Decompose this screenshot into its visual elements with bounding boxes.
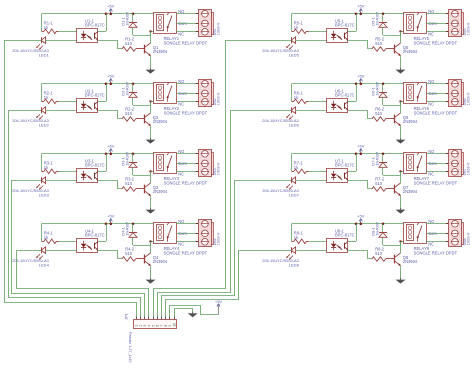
resistor R3-1 1k bbox=[42, 161, 59, 174]
node rail junction dots ch2 bbox=[105, 83, 135, 86]
svg-text:LED6: LED6 bbox=[289, 122, 300, 127]
svg-text:2N3904: 2N3904 bbox=[403, 49, 418, 54]
node rail junction dots ch7 bbox=[355, 153, 385, 156]
wire RELAY2 NC to connector bbox=[176, 101, 198, 103]
resistor R5-2 510 bbox=[372, 37, 395, 52]
ground GND Q4 bbox=[146, 278, 156, 284]
svg-text:510: 510 bbox=[375, 111, 383, 116]
svg-text:1N4007: 1N4007 bbox=[125, 11, 130, 26]
wire Q7 collector node bbox=[399, 170, 404, 183]
wire U8-1 emitter to R8-2 bbox=[348, 251, 372, 259]
+5V supply at JP1 bbox=[215, 299, 223, 315]
svg-text:SONGLE RELAY DPDT: SONGLE RELAY DPDT bbox=[414, 111, 458, 116]
svg-text:+5V: +5V bbox=[357, 4, 365, 9]
wire +5V rail ch6 bbox=[292, 83, 404, 85]
svg-text:LED8: LED8 bbox=[289, 262, 300, 267]
svg-text:BPC-817C: BPC-817C bbox=[85, 93, 105, 98]
+5V supply P5V5 bbox=[357, 4, 365, 14]
diode D6-1 1N4007 bbox=[371, 81, 401, 105]
wire input net IN1 (LED1 to JP1 pin 1) bbox=[5, 41, 137, 320]
relay RELAY3 SONGLE RELAY DPDT bbox=[154, 153, 208, 186]
wire U7-1 collector to rail bbox=[348, 154, 357, 172]
optocoupler U1-1 BPC-817C bbox=[77, 18, 105, 42]
svg-text:1N4007: 1N4007 bbox=[375, 151, 380, 166]
ground GND at JP1 bbox=[188, 312, 198, 318]
wire +5V rail ch2 bbox=[42, 83, 154, 85]
svg-text:+5V: +5V bbox=[107, 214, 115, 219]
svg-text:BPC-817C: BPC-817C bbox=[335, 163, 355, 168]
resistor R5-1 1k bbox=[292, 21, 309, 34]
connector X4 screw terminal 1X03-V bbox=[196, 220, 221, 247]
wire +5V rail ch1 bbox=[42, 13, 154, 15]
wire LED7 to U7-1 pin2 bbox=[296, 180, 327, 182]
wire Q1 collector node bbox=[149, 30, 154, 43]
svg-text:1X03-V: 1X03-V bbox=[467, 232, 471, 245]
svg-text:BPC-817C: BPC-817C bbox=[335, 23, 355, 28]
wire +5V rail ch7 bbox=[292, 153, 404, 155]
svg-text:+5V: +5V bbox=[107, 74, 115, 79]
svg-text:LED4: LED4 bbox=[39, 262, 50, 267]
svg-text:2N3904: 2N3904 bbox=[403, 119, 418, 124]
transistor Q1 2N3904 bbox=[145, 43, 168, 56]
relay RELAY8 SONGLE RELAY DPDT bbox=[404, 223, 458, 256]
LED7 204-10UYC/S530-A3 bbox=[262, 177, 299, 198]
wire RELAY4 Com to connector bbox=[176, 233, 198, 235]
LED5 204-10UYC/S530-A3 bbox=[262, 37, 299, 58]
resistor R2-2 510 bbox=[122, 107, 145, 122]
optocoupler U5-1 BPC-817C bbox=[327, 18, 355, 42]
svg-text:1X03-V: 1X03-V bbox=[217, 22, 221, 35]
wire JP1 pin 10 to ground bbox=[175, 309, 193, 320]
connector X3 screw terminal 1X03-V bbox=[196, 150, 221, 177]
wire U2-1 collector to rail bbox=[98, 84, 107, 102]
transistor Q2 2N3904 bbox=[145, 113, 168, 126]
wire LED4 to U4-1 pin2 bbox=[46, 250, 77, 252]
transistor Q5 2N3904 bbox=[395, 43, 418, 56]
wire RELAY1 NC to connector bbox=[176, 31, 198, 33]
svg-text:510: 510 bbox=[125, 111, 133, 116]
+5V supply P5V6 bbox=[357, 74, 365, 84]
resistor R6-1 1k bbox=[292, 91, 309, 104]
optocoupler U6-1 BPC-817C bbox=[327, 88, 355, 112]
optocoupler U2-1 BPC-817C bbox=[77, 88, 105, 112]
wire R7-1 to U7-1 pin1 bbox=[309, 171, 328, 173]
wire RELAY5 NC to connector bbox=[426, 31, 448, 33]
optocoupler U8-1 BPC-817C bbox=[327, 228, 355, 252]
svg-text:BPC-817C: BPC-817C bbox=[85, 23, 105, 28]
svg-text:1X03-V: 1X03-V bbox=[467, 162, 471, 175]
svg-text:SONGLE RELAY DPDT: SONGLE RELAY DPDT bbox=[414, 181, 458, 186]
wire LED8 to U8-1 pin2 bbox=[296, 250, 327, 252]
diode D1-1 1N4007 bbox=[121, 11, 151, 35]
wire R5-1 to U5-1 pin1 bbox=[309, 31, 328, 33]
node rail junction dots ch1 bbox=[105, 13, 135, 16]
wire input net IN2 (LED2 to JP1 pin 2) bbox=[9, 111, 141, 320]
wire Q6 collector node bbox=[399, 100, 404, 113]
connector X8 screw terminal 1X03-V bbox=[446, 220, 471, 247]
svg-text:10: 10 bbox=[172, 323, 176, 327]
resistor R7-1 1k bbox=[292, 161, 309, 174]
optocoupler U7-1 BPC-817C bbox=[327, 158, 355, 182]
optocoupler U4-1 BPC-817C bbox=[77, 228, 105, 252]
wire RELAY6 Com to connector bbox=[426, 93, 448, 95]
wire Q2 collector node bbox=[149, 100, 154, 113]
svg-text:1X03-V: 1X03-V bbox=[467, 92, 471, 105]
resistor R1-2 510 bbox=[122, 37, 145, 52]
wire RELAY3 NO to connector bbox=[176, 153, 198, 155]
wire U7-1 emitter to R7-2 bbox=[348, 181, 372, 189]
svg-text:1X03-V: 1X03-V bbox=[467, 22, 471, 35]
+5V supply P5V3 bbox=[107, 144, 115, 154]
relay RELAY7 SONGLE RELAY DPDT bbox=[404, 153, 458, 186]
wire LED1 to U1-1 pin2 bbox=[46, 40, 77, 42]
wire U2-1 emitter to R2-2 bbox=[98, 111, 122, 119]
wire Q4 collector node bbox=[149, 240, 154, 253]
wire Q3 collector node bbox=[149, 170, 154, 183]
svg-text:BPC-817C: BPC-817C bbox=[335, 93, 355, 98]
LED1 204-10UYC/S530-A3 bbox=[12, 37, 49, 58]
wire R6-1 to U6-1 pin1 bbox=[309, 101, 328, 103]
wire RELAY7 NO to connector bbox=[426, 153, 448, 155]
connector X1 screw terminal 1X03-V bbox=[196, 10, 221, 37]
ground GND Q5 bbox=[396, 68, 406, 74]
svg-text:510: 510 bbox=[125, 181, 133, 186]
relay RELAY8 pin labels NO/Com/NC bbox=[428, 219, 437, 246]
wire RELAY1 Com to connector bbox=[176, 23, 198, 25]
+5V supply P5V2 bbox=[107, 74, 115, 84]
svg-text:NC: NC bbox=[428, 171, 434, 176]
node rail junction dots ch5 bbox=[355, 13, 385, 16]
wire input net IN6 (LED6 to JP1 pin 6) bbox=[158, 111, 292, 320]
wire U4-1 emitter to R4-2 bbox=[98, 251, 122, 259]
svg-text:+5V: +5V bbox=[215, 299, 223, 304]
transistor Q6 2N3904 bbox=[395, 113, 418, 126]
svg-text:+5V: +5V bbox=[107, 4, 115, 9]
svg-text:SONGLE RELAY DPDT: SONGLE RELAY DPDT bbox=[164, 111, 208, 116]
wire Q5 collector node bbox=[399, 30, 404, 43]
wire Q2 emitter to ground bbox=[150, 126, 152, 138]
wire rail to R6-1 bbox=[291, 84, 293, 102]
relay RELAY2 pin labels NO/Com/NC bbox=[178, 79, 187, 106]
diode D2-1 1N4007 bbox=[121, 81, 151, 105]
relay RELAY1 SONGLE RELAY DPDT bbox=[154, 13, 208, 46]
wire rail to R5-1 bbox=[291, 14, 293, 32]
resistor R7-2 510 bbox=[372, 177, 395, 192]
optocoupler U3-1 BPC-817C bbox=[77, 158, 105, 182]
diode D4-1 1N4007 bbox=[121, 221, 151, 245]
svg-text:+5V: +5V bbox=[107, 144, 115, 149]
wire Q8 collector node bbox=[399, 240, 404, 253]
relay RELAY3 pin labels NO/Com/NC bbox=[178, 149, 187, 176]
relay RELAY5 pin labels NO/Com/NC bbox=[428, 9, 437, 36]
relay RELAY4 pin labels NO/Com/NC bbox=[178, 219, 187, 246]
wire input net IN8 (LED8 to JP1 pin 8) bbox=[166, 251, 292, 320]
wire RELAY2 Com to connector bbox=[176, 93, 198, 95]
svg-text:BPC-817C: BPC-817C bbox=[335, 233, 355, 238]
+5V supply P5V7 bbox=[357, 144, 365, 154]
relay RELAY4 SONGLE RELAY DPDT bbox=[154, 223, 208, 256]
wire LED3 to U3-1 pin2 bbox=[46, 180, 77, 182]
wire RELAY8 Com to connector bbox=[426, 233, 448, 235]
ground GND Q8 bbox=[396, 278, 406, 284]
wire input net IN7 (LED7 to JP1 pin 7) bbox=[162, 181, 292, 320]
svg-text:1N4007: 1N4007 bbox=[375, 11, 380, 26]
LED3 204-10UYC/S530-A3 bbox=[12, 177, 49, 198]
connector X2 screw terminal 1X03-V bbox=[196, 80, 221, 107]
svg-text:SONGLE RELAY DPDT: SONGLE RELAY DPDT bbox=[164, 251, 208, 256]
transistor Q8 2N3904 bbox=[395, 253, 418, 266]
svg-text:1N4007: 1N4007 bbox=[375, 221, 380, 236]
transistor Q3 2N3904 bbox=[145, 183, 168, 196]
wire Q8 emitter to ground bbox=[400, 266, 402, 278]
resistor R1-1 1k bbox=[42, 21, 59, 34]
svg-text:LED7: LED7 bbox=[289, 192, 300, 197]
svg-text:1N4007: 1N4007 bbox=[125, 81, 130, 96]
svg-text:LED5: LED5 bbox=[289, 52, 300, 57]
resistor R4-1 1k bbox=[42, 231, 59, 244]
resistor R2-1 1k bbox=[42, 91, 59, 104]
svg-text:1N4007: 1N4007 bbox=[125, 221, 130, 236]
wire JP1 pin 9 to +5V bbox=[170, 306, 219, 320]
resistor R8-1 1k bbox=[292, 231, 309, 244]
wire U4-1 collector to rail bbox=[98, 224, 107, 242]
wire RELAY2 NO to connector bbox=[176, 83, 198, 85]
svg-text:NC: NC bbox=[178, 241, 184, 246]
resistor R8-2 510 bbox=[372, 247, 395, 262]
diode D8-1 1N4007 bbox=[371, 221, 401, 245]
svg-text:SONGLE RELAY DPDT: SONGLE RELAY DPDT bbox=[164, 181, 208, 186]
diode D5-1 1N4007 bbox=[371, 11, 401, 35]
wire rail to R1-1 bbox=[41, 14, 43, 32]
svg-text:SONGLE RELAY DPDT: SONGLE RELAY DPDT bbox=[414, 41, 458, 46]
wire RELAY7 NC to connector bbox=[426, 171, 448, 173]
wire RELAY4 NC to connector bbox=[176, 241, 198, 243]
+5V supply P5V1 bbox=[107, 4, 115, 14]
wire rail to R2-1 bbox=[41, 84, 43, 102]
svg-text:NC: NC bbox=[178, 171, 184, 176]
wire Q5 emitter to ground bbox=[400, 56, 402, 68]
resistor R4-2 510 bbox=[122, 247, 145, 262]
wire RELAY3 Com to connector bbox=[176, 163, 198, 165]
svg-text:BPC-817C: BPC-817C bbox=[85, 163, 105, 168]
wire U1-1 collector to rail bbox=[98, 14, 107, 32]
relay RELAY2 SONGLE RELAY DPDT bbox=[154, 83, 208, 116]
svg-text:1N4007: 1N4007 bbox=[125, 151, 130, 166]
wire RELAY5 NO to connector bbox=[426, 13, 448, 15]
svg-text:LED2: LED2 bbox=[39, 122, 50, 127]
svg-text:LED1: LED1 bbox=[39, 52, 50, 57]
svg-text:Female 1.27_1x10: Female 1.27_1x10 bbox=[128, 332, 132, 363]
svg-text:+5V: +5V bbox=[357, 144, 365, 149]
svg-text:+5V: +5V bbox=[357, 214, 365, 219]
svg-text:510: 510 bbox=[375, 251, 383, 256]
ground GND Q3 bbox=[146, 208, 156, 214]
wire U3-1 emitter to R3-2 bbox=[98, 181, 122, 189]
wire input net IN5 (LED5 to JP1 pin 5) bbox=[154, 41, 292, 320]
svg-text:NC: NC bbox=[178, 31, 184, 36]
svg-text:1X03-V: 1X03-V bbox=[217, 232, 221, 245]
wire U5-1 collector to rail bbox=[348, 14, 357, 32]
wire U1-1 emitter to R1-2 bbox=[98, 41, 122, 49]
ground GND Q1 bbox=[146, 68, 156, 74]
transistor Q7 2N3904 bbox=[395, 183, 418, 196]
svg-text:2N3904: 2N3904 bbox=[153, 119, 168, 124]
resistor R6-2 510 bbox=[372, 107, 395, 122]
wire Q1 emitter to ground bbox=[150, 56, 152, 68]
relay RELAY5 SONGLE RELAY DPDT bbox=[404, 13, 458, 46]
wire U6-1 collector to rail bbox=[348, 84, 357, 102]
svg-text:BPC-817C: BPC-817C bbox=[85, 233, 105, 238]
relay RELAY6 pin labels NO/Com/NC bbox=[428, 79, 437, 106]
wire input net IN4 (LED4 to JP1 pin 4) bbox=[17, 251, 149, 320]
wire Q7 emitter to ground bbox=[400, 196, 402, 208]
relay RELAY7 pin labels NO/Com/NC bbox=[428, 149, 437, 176]
wire RELAY7 Com to connector bbox=[426, 163, 448, 165]
node rail junction dots ch3 bbox=[105, 153, 135, 156]
wire rail to R7-1 bbox=[291, 154, 293, 172]
svg-text:SONGLE RELAY DPDT: SONGLE RELAY DPDT bbox=[164, 41, 208, 46]
wire RELAY8 NC to connector bbox=[426, 241, 448, 243]
svg-text:NC: NC bbox=[428, 241, 434, 246]
wire U5-1 emitter to R5-2 bbox=[348, 41, 372, 49]
wire input net IN3 (LED3 to JP1 pin 3) bbox=[12, 181, 145, 320]
LED2 204-10UYC/S530-A3 bbox=[12, 107, 49, 128]
connector X7 screw terminal 1X03-V bbox=[446, 150, 471, 177]
node rail junction dots ch8 bbox=[355, 223, 385, 226]
wire U3-1 collector to rail bbox=[98, 154, 107, 172]
connector X5 screw terminal 1X03-V bbox=[446, 10, 471, 37]
svg-text:2N3904: 2N3904 bbox=[153, 189, 168, 194]
wire R8-1 to U8-1 pin1 bbox=[309, 241, 328, 243]
svg-text:2N3904: 2N3904 bbox=[403, 189, 418, 194]
relay RELAY1 pin labels NO/Com/NC bbox=[178, 9, 187, 36]
LED8 204-10UYC/S530-A3 bbox=[262, 247, 299, 268]
+5V supply P5V4 bbox=[107, 214, 115, 224]
wire U8-1 collector to rail bbox=[348, 224, 357, 242]
svg-text:510: 510 bbox=[125, 41, 133, 46]
wire R2-1 to U2-1 pin1 bbox=[59, 101, 78, 103]
svg-text:510: 510 bbox=[375, 41, 383, 46]
node rail junction dots ch4 bbox=[105, 223, 135, 226]
svg-text:LED3: LED3 bbox=[39, 192, 50, 197]
svg-text:JP1: JP1 bbox=[123, 312, 128, 320]
wire rail to R4-1 bbox=[41, 224, 43, 242]
wire +5V rail ch8 bbox=[292, 223, 404, 225]
svg-text:2N3904: 2N3904 bbox=[403, 259, 418, 264]
wire Q4 emitter to ground bbox=[150, 266, 152, 278]
wire RELAY4 NO to connector bbox=[176, 223, 198, 225]
wire LED6 to U6-1 pin2 bbox=[296, 110, 327, 112]
svg-text:1X03-V: 1X03-V bbox=[217, 162, 221, 175]
wire U6-1 emitter to R6-2 bbox=[348, 111, 372, 119]
wire RELAY6 NO to connector bbox=[426, 83, 448, 85]
svg-text:2N3904: 2N3904 bbox=[153, 49, 168, 54]
svg-text:NC: NC bbox=[428, 31, 434, 36]
transistor Q4 2N3904 bbox=[145, 253, 168, 266]
diode D3-1 1N4007 bbox=[121, 151, 151, 175]
connector JP1 Female 1.27_1x10 bbox=[123, 312, 176, 362]
wire LED5 to U5-1 pin2 bbox=[296, 40, 327, 42]
svg-text:+5V: +5V bbox=[357, 74, 365, 79]
svg-text:1X03-V: 1X03-V bbox=[217, 92, 221, 105]
svg-text:SONGLE RELAY DPDT: SONGLE RELAY DPDT bbox=[414, 251, 458, 256]
svg-text:NC: NC bbox=[428, 101, 434, 106]
ground GND Q2 bbox=[146, 138, 156, 144]
wire R1-1 to U1-1 pin1 bbox=[59, 31, 78, 33]
svg-text:510: 510 bbox=[375, 181, 383, 186]
ground GND Q6 bbox=[396, 138, 406, 144]
diode D7-1 1N4007 bbox=[371, 151, 401, 175]
LED4 204-10UYC/S530-A3 bbox=[12, 247, 49, 268]
wire rail to R8-1 bbox=[291, 224, 293, 242]
resistor R3-2 510 bbox=[122, 177, 145, 192]
wire LED2 to U2-1 pin2 bbox=[46, 110, 77, 112]
node rail junction dots ch6 bbox=[355, 83, 385, 86]
wire +5V rail ch4 bbox=[42, 223, 154, 225]
svg-text:NC: NC bbox=[178, 101, 184, 106]
wire Q3 emitter to ground bbox=[150, 196, 152, 208]
wire RELAY6 NC to connector bbox=[426, 101, 448, 103]
ground GND Q7 bbox=[396, 208, 406, 214]
+5V supply P5V8 bbox=[357, 214, 365, 224]
wire RELAY5 Com to connector bbox=[426, 23, 448, 25]
wire RELAY3 NC to connector bbox=[176, 171, 198, 173]
LED6 204-10UYC/S530-A3 bbox=[262, 107, 299, 128]
connector X6 screw terminal 1X03-V bbox=[446, 80, 471, 107]
svg-text:1N4007: 1N4007 bbox=[375, 81, 380, 96]
wire RELAY1 NO to connector bbox=[176, 13, 198, 15]
wire R3-1 to U3-1 pin1 bbox=[59, 171, 78, 173]
wire R4-1 to U4-1 pin1 bbox=[59, 241, 78, 243]
wire +5V rail ch3 bbox=[42, 153, 154, 155]
svg-text:2N3904: 2N3904 bbox=[153, 259, 168, 264]
wire Q6 emitter to ground bbox=[400, 126, 402, 138]
wire rail to R3-1 bbox=[41, 154, 43, 172]
svg-text:510: 510 bbox=[125, 251, 133, 256]
relay RELAY6 SONGLE RELAY DPDT bbox=[404, 83, 458, 116]
wire +5V rail ch5 bbox=[292, 13, 404, 15]
wire RELAY8 NO to connector bbox=[426, 223, 448, 225]
